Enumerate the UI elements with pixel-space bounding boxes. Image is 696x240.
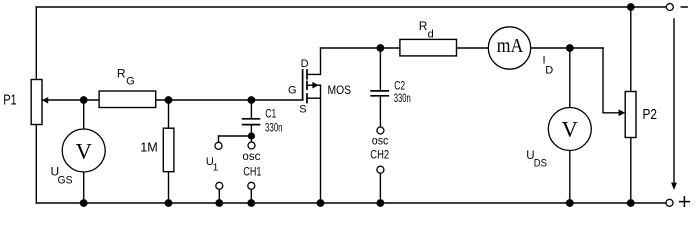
wire U_1 terminal drop	[218, 136, 220, 142]
svg-text:330n: 330n	[265, 122, 283, 134]
svg-text:C1: C1	[265, 108, 276, 120]
supply voltage arrowhead	[671, 183, 677, 190]
svg-text:330n: 330n	[394, 93, 411, 105]
label osc CH1	[242, 151, 261, 179]
wire plus sign at supply bottom	[680, 197, 690, 207]
transistor MOS bulk arrow	[312, 82, 318, 89]
wire supply voltage arrow shaft	[673, 19, 675, 183]
svg-text:R: R	[117, 67, 126, 81]
svg-text:d: d	[428, 29, 434, 41]
wire CH1 right bottom terminal to rail	[250, 189, 252, 203]
svg-text:P2: P2	[643, 107, 658, 123]
svg-text:osc: osc	[242, 151, 260, 163]
junction rail CH1 right	[247, 199, 255, 207]
wire MOSFET source stub	[307, 97, 321, 99]
junction rail U_GS	[80, 199, 88, 207]
wire C2 top lead	[379, 48, 381, 90]
P1 wiper arrow	[42, 97, 48, 104]
wire drain rail to P2 wiper corner	[321, 47, 604, 49]
junction rail MOS source	[317, 199, 325, 207]
svg-text:CH1: CH1	[243, 167, 261, 179]
transistor MOS gate bar	[302, 69, 304, 100]
wire MOSFET drain stub and lead up	[307, 48, 321, 74]
wire P2 top lead	[630, 7, 632, 92]
svg-text:G: G	[126, 75, 135, 87]
junction rail P2	[627, 199, 635, 207]
wire voltmeter U_GS top lead	[83, 100, 85, 129]
svg-text:D: D	[301, 58, 309, 70]
junction gate / C1	[248, 96, 256, 104]
wire left vertical from top rail to P1	[35, 7, 37, 79]
svg-text:1M: 1M	[140, 140, 158, 155]
label C2 value	[394, 80, 411, 105]
potentiometer P1 body	[31, 80, 48, 125]
svg-text:DS: DS	[534, 157, 547, 169]
wire C2 bottom lead to osc terminal	[379, 97, 381, 127]
svg-text:mA: mA	[497, 36, 524, 57]
terminal CH1 left bottom circle	[216, 182, 223, 189]
junction rail 1M	[165, 199, 173, 207]
svg-text:MOS: MOS	[328, 85, 352, 97]
svg-text:P1: P1	[3, 93, 17, 109]
wire osc terminal drop	[250, 136, 252, 142]
wire MOSFET source lead to bottom rail	[320, 85, 322, 203]
label U_DS	[526, 150, 547, 170]
junction C1 tee	[248, 132, 255, 139]
terminal U_1 top circle	[215, 142, 222, 149]
resistor 1M body	[163, 128, 174, 172]
svg-text:GS: GS	[58, 174, 73, 186]
wire voltmeter U_DS top lead	[569, 48, 571, 108]
wire voltmeter U_GS bottom lead	[83, 172, 85, 203]
voltmeter U_DS circle	[548, 108, 591, 151]
wire minus sign at supply top	[681, 6, 687, 8]
junction drain / C2	[377, 44, 385, 52]
junction mA / U_DS	[566, 44, 574, 52]
transistor MOS channel segments	[306, 69, 308, 103]
label U_GS	[51, 165, 73, 187]
svg-text:CH2: CH2	[370, 150, 389, 162]
voltmeter U_GS circle	[62, 129, 105, 172]
wire CH2 bottom terminal to rail	[379, 173, 381, 203]
wire 1M top lead	[168, 100, 170, 128]
svg-text:G: G	[288, 85, 297, 97]
label RG	[117, 67, 135, 88]
wire C1 top lead	[250, 100, 252, 118]
svg-text:D: D	[545, 64, 553, 76]
wire P2 bottom lead	[630, 138, 632, 204]
svg-text:S: S	[299, 104, 306, 116]
wire top rail	[36, 6, 666, 8]
svg-text:V: V	[76, 138, 92, 163]
svg-text:V: V	[562, 117, 578, 142]
svg-text:osc: osc	[372, 135, 389, 147]
label C1 value	[265, 108, 283, 134]
junction top rail / P2	[627, 3, 635, 11]
wire MOSFET bulk stub	[307, 84, 321, 86]
wire tee horizontal to U_1 terminal	[219, 135, 252, 137]
svg-text:C2: C2	[394, 80, 405, 92]
potentiometer P2 body	[619, 92, 636, 138]
terminal supply plus circle	[666, 199, 673, 206]
junction P1 wiper / U_GS	[80, 96, 88, 104]
terminal CH1 right bottom circle	[248, 182, 255, 189]
capacitor C2 plates	[370, 91, 389, 96]
resistor Rd body	[400, 39, 457, 56]
label osc CH2	[370, 135, 389, 161]
terminal osc CH2 top circle	[377, 127, 384, 134]
ammeter mA circle	[488, 27, 530, 69]
P2 wiper arrow	[619, 109, 626, 116]
terminal osc CH1 top circle	[248, 142, 255, 149]
svg-text:R: R	[419, 19, 428, 33]
resistor RG body	[99, 91, 156, 108]
terminal supply minus circle	[666, 4, 673, 11]
wire gate run from P1 wiper to MOSFET gate	[42, 99, 303, 101]
wire C1 bottom lead to tee	[250, 125, 252, 136]
terminal osc CH2 bottom circle	[377, 166, 384, 173]
label U_1	[206, 156, 219, 173]
junction rail CH2	[377, 199, 385, 207]
wire CH1 left bottom terminal to rail	[218, 189, 220, 203]
wire P2 wiper feed	[603, 48, 619, 113]
label I_D	[543, 55, 554, 77]
capacitor C1 plates	[242, 119, 260, 125]
label Rd	[419, 19, 434, 41]
wire bottom rail	[36, 202, 666, 204]
wire 1M bottom lead	[168, 172, 170, 203]
wire voltmeter U_DS bottom lead	[569, 151, 571, 204]
wire P1 bottom to bottom rail	[35, 125, 37, 204]
junction rail U_DS	[566, 199, 574, 207]
svg-text:1: 1	[213, 163, 219, 174]
junction rail CH1 left	[215, 199, 223, 207]
junction RG / 1M	[165, 96, 173, 104]
